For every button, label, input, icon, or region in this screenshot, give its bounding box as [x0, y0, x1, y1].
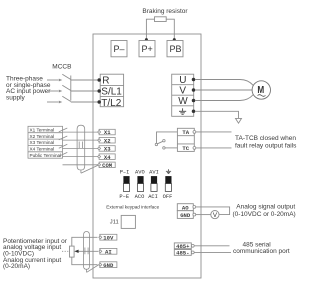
label 485 serial [233, 241, 290, 255]
output terminal block U V W PE [172, 74, 194, 116]
junction dot U [192, 78, 196, 82]
PE earth glyph in terminal block [179, 108, 186, 114]
svg-text:MCCB: MCCB [52, 64, 71, 71]
label TA-TCB note [235, 135, 297, 149]
shielded cable capsule for analog wires [84, 232, 90, 270]
junction dot on P+ [145, 38, 148, 41]
svg-text:TA: TA [182, 129, 189, 136]
wire pot top to +10V [72, 237, 98, 246]
jumper J1 P-I/P-E [123, 176, 129, 191]
junction dot PE [192, 110, 196, 114]
svg-text:X3 Terminal: X3 Terminal [30, 140, 55, 145]
svg-text:communication port: communication port [233, 248, 290, 255]
terminal GND analog input [99, 262, 117, 269]
jumper J2 AVO/ACO [137, 176, 143, 191]
relay terminal block TA TC [177, 128, 194, 151]
terminal P+ [139, 41, 155, 57]
wire V to motor [195, 89, 252, 91]
svg-text:Public Terminal: Public Terminal [30, 153, 62, 158]
svg-text:External keypad interface: External keypad interface [106, 205, 159, 210]
svg-text:P+: P+ [142, 44, 153, 54]
terminal GND analog [177, 211, 193, 219]
relay contact lower [163, 147, 165, 149]
terminal COM [98, 162, 116, 169]
supply arrow L2 [47, 90, 62, 93]
svg-text:GND: GND [103, 262, 114, 269]
jumper J4 top label earth glyph [166, 169, 171, 173]
svg-text:(0-20mA): (0-20mA) [3, 263, 30, 270]
terminal 485- [174, 249, 191, 256]
shield drain wire to GND [87, 265, 99, 272]
potentiometer wiper arrow to AI [74, 250, 98, 253]
svg-text:PB: PB [170, 44, 182, 54]
svg-text:X2: X2 [104, 137, 111, 144]
junction dot S/L1 [97, 89, 101, 93]
relay blade [157, 141, 163, 144]
485- circle [191, 251, 194, 254]
svg-text:M: M [257, 84, 264, 95]
wire X2 [63, 139, 98, 141]
svg-text:AO: AO [182, 204, 189, 211]
MCCB linkage bar [70, 76, 72, 101]
braking resistor RB body [155, 17, 167, 22]
svg-text:X1: X1 [104, 129, 111, 136]
earth arrow symbol [236, 118, 242, 123]
switch blade X1 [59, 128, 68, 132]
svg-text:Braking resistor: Braking resistor [142, 8, 188, 15]
digital input label box X1 Terminal [28, 126, 63, 158]
svg-text:AVI: AVI [149, 170, 159, 176]
svg-text:10V: 10V [103, 234, 114, 241]
wire X4 [63, 156, 98, 158]
terminal AI [99, 248, 117, 255]
wire P+ to braking resistor [146, 19, 154, 40]
relay pole circle [155, 143, 157, 145]
MCCB switch blade 1 [62, 74, 71, 79]
inverter main box outline [93, 34, 201, 278]
MCCB switch blade 3 [62, 96, 71, 101]
wire PE to earth [195, 111, 239, 118]
connector J11 box [121, 215, 135, 228]
wire TA out [196, 131, 232, 133]
terminal X3 [98, 146, 116, 153]
wire relay contact to TC [165, 147, 177, 149]
svg-text:GND: GND [180, 212, 191, 219]
svg-text:X4 Terminal: X4 Terminal [30, 147, 55, 152]
wire MCCB to R [71, 79, 99, 81]
wire 485- [194, 251, 231, 253]
svg-text:P–I: P–I [120, 170, 130, 176]
TA circle [193, 131, 196, 134]
svg-text:COM: COM [102, 162, 113, 169]
wire 485+ [194, 245, 229, 247]
potentiometer RP body [70, 246, 75, 257]
terminal PB [167, 41, 183, 57]
svg-text:U: U [179, 75, 186, 86]
wire braking resistor to PB [166, 19, 174, 40]
label potentiometer input [3, 238, 68, 270]
wire X1 [63, 131, 98, 133]
AO circle [193, 206, 196, 209]
junction dot V [192, 88, 196, 92]
terminal +10V [99, 234, 117, 241]
voltmeter V [211, 211, 219, 219]
shield drain wire to COM [81, 165, 99, 173]
terminal P- [111, 41, 127, 57]
svg-text:W: W [178, 96, 188, 107]
junction dot T/L2 [97, 100, 101, 104]
GND circle [193, 213, 196, 216]
junction dot W [192, 99, 196, 103]
wire U to motor [195, 80, 253, 86]
input terminal block R S/L1 T/L2 [100, 74, 123, 107]
supply arrow L3 [47, 101, 62, 104]
terminal X1 [98, 129, 116, 136]
wire TC out [196, 147, 232, 149]
svg-text:T/L2: T/L2 [101, 98, 121, 109]
wire GND to voltmeter [196, 214, 211, 216]
label AC supply [6, 75, 51, 101]
wire MCCB to S/L1 [71, 90, 99, 92]
motor M [252, 81, 270, 99]
svg-text:fault relay output fails: fault relay output fails [235, 142, 297, 149]
svg-text:ACI: ACI [148, 194, 158, 200]
485+ circle [191, 244, 194, 247]
terminal AO [177, 204, 193, 212]
svg-text:R: R [102, 75, 109, 86]
MCCB switch blade 2 [62, 85, 71, 90]
switch blade X3 [59, 144, 68, 148]
svg-text:ACO: ACO [135, 194, 145, 200]
svg-text:X3: X3 [104, 146, 111, 153]
svg-text:X4: X4 [104, 154, 111, 161]
switch blade X4 [59, 152, 68, 156]
terminal 485+ [174, 243, 191, 250]
jumper J3 AVI/ACI [151, 176, 157, 191]
terminal X4 [98, 154, 116, 161]
supply arrow L1 [47, 79, 62, 82]
svg-text:S/L1: S/L1 [101, 87, 122, 98]
junction dot R [97, 78, 101, 82]
relay contact upper [163, 140, 165, 142]
terminal X2 [98, 137, 116, 144]
switch blade X2 [59, 136, 68, 140]
wire MCCB to T/L2 [71, 101, 99, 103]
wire pot bottom to GND [72, 257, 98, 265]
jumper J4 earth/OFF [165, 176, 171, 191]
wire TA to relay pole [157, 132, 178, 143]
wire X3 [63, 147, 98, 149]
svg-text:Analog signal output: Analog signal output [236, 204, 295, 211]
TC circle [193, 147, 196, 150]
potentiometer dashed lead [62, 250, 68, 252]
wire COM [63, 164, 98, 166]
svg-text:V: V [179, 86, 186, 97]
svg-text:TA-TCB closed when: TA-TCB closed when [235, 135, 296, 142]
svg-text:P–E: P–E [119, 194, 129, 200]
svg-text:P–: P– [114, 44, 125, 54]
svg-text:(0-10VDC or 0-20mA): (0-10VDC or 0-20mA) [233, 211, 296, 218]
svg-text:AVO: AVO [135, 170, 145, 176]
wire AO to voltmeter loop [196, 207, 230, 215]
svg-text:X1 Terminal: X1 Terminal [30, 127, 55, 132]
svg-text:OFF: OFF [163, 194, 173, 200]
shielded cable capsule for X wires [77, 125, 85, 170]
svg-text:J11: J11 [110, 220, 119, 226]
label analog signal output [233, 204, 296, 218]
wire W to motor [195, 95, 253, 101]
svg-text:X2 Terminal: X2 Terminal [30, 134, 55, 139]
svg-text:supply: supply [6, 95, 26, 102]
junction dot on PB [173, 38, 176, 41]
svg-text:TC: TC [182, 145, 189, 152]
svg-text:485-: 485- [176, 249, 189, 256]
svg-text:AI: AI [105, 248, 112, 255]
